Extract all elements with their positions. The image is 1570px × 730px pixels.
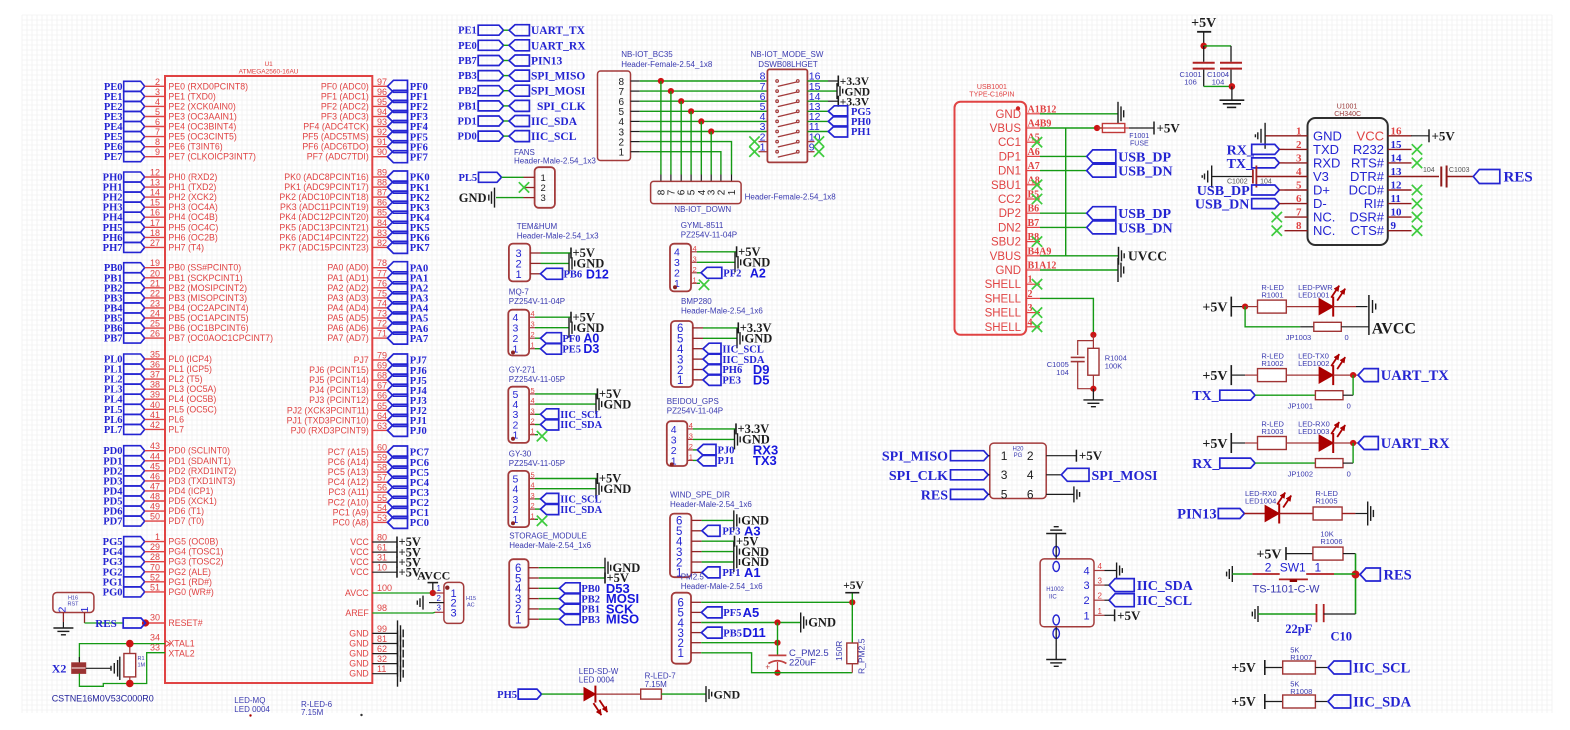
MCU left pin 36 PL1	[124, 364, 145, 374]
svg-text:SPI_CLK: SPI_CLK	[889, 469, 948, 484]
CH340C pin 2 TXD	[1285, 148, 1308, 150]
svg-text:A7: A7	[1028, 161, 1040, 172]
svg-text:86: 86	[377, 198, 387, 208]
svg-text:+5V: +5V	[843, 580, 864, 592]
svg-text:PB5 (OC1APCINT5): PB5 (OC1APCINT5)	[168, 313, 248, 323]
svg-text:PK5 (ADC13PCINT21): PK5 (ADC13PCINT21)	[279, 222, 369, 232]
svg-text:59: 59	[377, 453, 387, 463]
wire vertical drop pin6	[680, 101, 682, 174]
svg-text:3: 3	[1296, 152, 1302, 164]
svg-text:UVCC: UVCC	[1128, 249, 1167, 264]
svg-text:PE6 (T3INT6): PE6 (T3INT6)	[168, 142, 222, 152]
svg-text:PK4 (ADC12PCINT20): PK4 (ADC12PCINT20)	[279, 212, 369, 222]
svg-text:4: 4	[531, 309, 535, 318]
svg-text:SBU2: SBU2	[991, 237, 1021, 249]
MCU VCC pin 31 +5V	[372, 561, 397, 563]
MCU left pin 6 PE4	[124, 122, 145, 132]
svg-text:GND: GND	[349, 639, 369, 649]
svg-text:BMP280: BMP280	[681, 297, 712, 306]
MCU left pin 46 PD3	[124, 476, 145, 486]
wire USB GND A1B12 to ground	[1040, 113, 1118, 115]
wire cap rail top	[1204, 45, 1231, 47]
no-connect X SHELL3	[1032, 307, 1042, 317]
svg-text:PL4 (OC5B): PL4 (OC5B)	[168, 394, 216, 404]
svg-text:PB3: PB3	[458, 71, 477, 82]
svg-text:13: 13	[1391, 166, 1403, 178]
svg-text:60: 60	[377, 443, 387, 453]
MCU right pin 65 PJ2	[372, 409, 387, 411]
svg-text:PF0 (ADC0): PF0 (ADC0)	[321, 81, 369, 91]
svg-text:SPI_CLK: SPI_CLK	[537, 101, 586, 113]
svg-text:SW1: SW1	[1280, 561, 1306, 575]
svg-text:XTAL1: XTAL1	[168, 639, 194, 649]
power +3.3V BEIDOU pin4	[693, 428, 736, 430]
svg-text:PA3 (AD3): PA3 (AD3)	[327, 293, 368, 303]
MCU left pin 44 PD1	[124, 456, 145, 466]
svg-text:IIC_SCL: IIC_SCL	[722, 344, 763, 355]
CH340C pin 14 RTS#	[1388, 162, 1412, 164]
svg-text:SHELL: SHELL	[985, 322, 1022, 334]
svg-text:PJ1 (TXD3PCINT10): PJ1 (TXD3PCINT10)	[287, 415, 369, 425]
svg-text:PE0: PE0	[458, 41, 477, 52]
MCU left pin 21 PB2	[124, 283, 145, 293]
svg-text:3: 3	[1098, 577, 1103, 586]
capacitor C1003 104 on DTR#	[1412, 176, 1440, 178]
svg-text:90: 90	[377, 147, 387, 157]
no-connect X CH340C pin14	[1412, 158, 1422, 168]
MCU VCC pin 61 +5V	[372, 551, 397, 553]
MCU right pin 93 PF4	[372, 126, 387, 128]
svg-text:PB6: PB6	[564, 270, 583, 281]
power +5V CH340C pin16	[1411, 135, 1429, 137]
svg-text:PL7: PL7	[104, 425, 123, 436]
svg-text:PL3 (OC5A): PL3 (OC5A)	[168, 384, 216, 394]
ground left of C1002	[1211, 166, 1213, 188]
svg-text:+5V: +5V	[1202, 437, 1227, 452]
svg-text:PE7: PE7	[104, 152, 123, 163]
svg-text:PE5: PE5	[562, 344, 581, 355]
svg-text:PH6 (OC2B): PH6 (OC2B)	[168, 232, 217, 242]
svg-text:93: 93	[377, 117, 387, 127]
ground GY-271 pin4	[535, 403, 596, 405]
wire R1007 to IIC_SCL flag	[1315, 667, 1328, 669]
ground BEIDOU pin3	[693, 438, 735, 440]
svg-text:PA5 (AD5): PA5 (AD5)	[327, 313, 368, 323]
ground above H1002	[1055, 534, 1057, 559]
svg-text:PE0 (RXD0PCINT8): PE0 (RXD0PCINT8)	[168, 81, 248, 91]
svg-text:95: 95	[377, 97, 387, 107]
svg-text:PH7 (T4): PH7 (T4)	[168, 242, 204, 252]
power +5V H1002 pin1	[1105, 614, 1115, 616]
svg-text:PB2: PB2	[458, 86, 477, 97]
svg-text:51: 51	[150, 582, 160, 592]
MCU GND pin 62	[372, 653, 397, 655]
svg-text:76: 76	[377, 278, 387, 288]
net flag USB_DN DN2	[1040, 226, 1087, 228]
svg-text:D3: D3	[583, 342, 599, 356]
svg-text:1: 1	[1315, 561, 1322, 575]
capacitor C_PM2.5 220uF	[768, 654, 786, 656]
svg-text:1: 1	[689, 452, 693, 461]
svg-text:PF2: PF2	[723, 269, 741, 280]
svg-text:220uF: 220uF	[789, 658, 816, 669]
svg-text:1: 1	[727, 189, 738, 195]
MCU right pin 85 PK4	[372, 216, 387, 218]
svg-text:JP1002: JP1002	[1288, 469, 1313, 478]
svg-text:XTAL2: XTAL2	[168, 649, 194, 659]
wire JP1001 up to UART_TX net	[1343, 394, 1353, 396]
MCU left pin 13 PH1	[124, 182, 145, 192]
svg-text:4: 4	[1028, 317, 1033, 328]
wire PM2.5 pin2 to cap	[701, 642, 777, 644]
svg-text:PL0 (ICP4): PL0 (ICP4)	[168, 354, 212, 364]
wire RX_ to JP1002	[1255, 462, 1315, 464]
svg-text:50: 50	[150, 512, 160, 522]
svg-text:PB7: PB7	[104, 334, 123, 345]
net flag PJ1 TX3 BEIDOU pin1	[693, 459, 697, 461]
svg-text:B7: B7	[1028, 218, 1040, 229]
svg-text:U1: U1	[264, 61, 273, 68]
svg-text:57: 57	[377, 473, 387, 483]
svg-text:GND: GND	[808, 616, 836, 630]
svg-text:R1006: R1006	[1320, 537, 1342, 546]
wire NB-IOT_BC35 pin5 to switch	[640, 110, 768, 112]
MCU AVCC pin 100	[372, 592, 433, 594]
MCU RESET# pin 30	[146, 622, 166, 624]
ground left of C10	[1257, 606, 1259, 622]
ground H15 pin2	[429, 602, 444, 604]
svg-text:GY-271: GY-271	[509, 366, 536, 375]
no-connect X SHELL1	[1032, 279, 1042, 289]
wire crystal bottom loop to XTAL2	[79, 653, 165, 687]
svg-text:DP1: DP1	[999, 151, 1021, 163]
wire H16 pin1 to RES flag	[84, 612, 86, 623]
MCU right pin 54 PC1	[372, 511, 387, 513]
svg-text:CC2: CC2	[998, 194, 1021, 206]
svg-text:19: 19	[150, 258, 160, 268]
ground below H16	[53, 627, 73, 629]
svg-text:+5V: +5V	[1079, 448, 1103, 463]
net flag PE5 D3 MQ-7 pin1	[535, 348, 541, 350]
svg-text:8: 8	[155, 137, 160, 147]
svg-text:2: 2	[1265, 561, 1272, 575]
MCU right pin 78 PA0	[372, 267, 387, 269]
net flag UART_TX	[1358, 369, 1378, 382]
MCU left pin 24 PB5	[124, 313, 145, 323]
svg-text:27: 27	[150, 238, 160, 248]
svg-text:PD5 (XCK1): PD5 (XCK1)	[168, 496, 216, 506]
svg-text:18: 18	[150, 228, 160, 238]
svg-text:2: 2	[1028, 289, 1033, 300]
no-connect X CH340C pin8	[1272, 226, 1282, 236]
svg-text:PK2 (ADC10PCINT18): PK2 (ADC10PCINT18)	[279, 192, 369, 202]
resistor JP1002 0	[1315, 459, 1343, 468]
connector H20 PG 2x3	[990, 443, 1046, 498]
svg-text:+5V: +5V	[1202, 369, 1227, 384]
svg-text:63: 63	[377, 421, 387, 431]
svg-text:PZ254V-11-05P: PZ254V-11-05P	[509, 375, 565, 384]
svg-text:31: 31	[377, 553, 387, 563]
svg-text:PG1 (RD#): PG1 (RD#)	[168, 577, 212, 587]
MCU left pin 47 PD4	[124, 486, 145, 496]
no-connect X GYML pin1	[697, 282, 700, 284]
svg-text:DSWB08LHGET: DSWB08LHGET	[758, 60, 818, 69]
svg-text:SHELL: SHELL	[985, 279, 1022, 291]
svg-text:100K: 100K	[1105, 362, 1123, 371]
MCU left pin 50 PD7	[124, 516, 145, 526]
svg-text:PF5: PF5	[723, 608, 741, 619]
power +5V after fuse	[1129, 127, 1154, 129]
svg-text:IIC_SCL: IIC_SCL	[1353, 661, 1411, 677]
svg-text:74: 74	[377, 298, 387, 308]
svg-text:USB_DN: USB_DN	[1195, 198, 1249, 213]
MCU left pin 20 PB1	[124, 273, 145, 283]
svg-text:5: 5	[531, 471, 535, 480]
svg-text:VCC: VCC	[350, 537, 369, 547]
MCU right pin 87 PK2	[372, 196, 387, 198]
svg-text:GND: GND	[714, 687, 741, 701]
svg-text:25: 25	[150, 319, 160, 329]
wire VBUS trunk	[1065, 128, 1067, 256]
svg-text:PJ6 (PCINT15): PJ6 (PCINT15)	[309, 365, 369, 375]
svg-text:VCC: VCC	[350, 547, 369, 557]
svg-text:PJ1: PJ1	[718, 456, 735, 467]
svg-text:TYPE-C16PIN: TYPE-C16PIN	[969, 92, 1014, 99]
svg-text:PJ5 (PCINT14): PJ5 (PCINT14)	[309, 375, 369, 385]
ground top right	[1220, 99, 1245, 101]
net flag IIC_SDA pullup	[1328, 695, 1351, 708]
svg-text:PG0: PG0	[103, 587, 123, 598]
svg-text:2: 2	[155, 77, 160, 87]
MCU right pin 58 PC5	[372, 471, 387, 473]
svg-text:22: 22	[150, 288, 160, 298]
svg-text:R_PM2.5: R_PM2.5	[857, 638, 867, 674]
svg-text:IIC_SDA: IIC_SDA	[531, 116, 578, 128]
svg-text:2: 2	[531, 330, 535, 339]
svg-text:IIC: IIC	[1049, 595, 1057, 601]
CH340C pin 6 D-	[1285, 203, 1308, 205]
svg-text:GY-30: GY-30	[509, 450, 532, 459]
svg-text:C1003: C1003	[1449, 167, 1470, 174]
svg-text:49: 49	[150, 502, 160, 512]
svg-text:5: 5	[531, 386, 535, 395]
svg-text:PB6 (OC1BPCINT6): PB6 (OC1BPCINT6)	[168, 323, 248, 333]
svg-text:PH5 (OC4C): PH5 (OC4C)	[168, 222, 218, 232]
svg-text:A6: A6	[1028, 147, 1040, 158]
svg-text:PE5 (OC3CINT5): PE5 (OC3CINT5)	[168, 132, 237, 142]
svg-text:NB-IOT_BC35: NB-IOT_BC35	[621, 50, 673, 59]
svg-text:3: 3	[1083, 580, 1089, 592]
capacitor C1005 104	[1078, 341, 1094, 355]
svg-text:RST: RST	[68, 602, 80, 608]
svg-text:R1: R1	[138, 656, 145, 662]
svg-text:USB_DN: USB_DN	[1118, 221, 1172, 236]
net flag IIC_SCL GY-271 pin3	[535, 413, 541, 415]
CH340C pin 10 DSR#	[1388, 216, 1412, 218]
svg-text:PG: PG	[1014, 453, 1023, 459]
svg-text:98: 98	[377, 603, 387, 613]
svg-text:1: 1	[677, 375, 683, 387]
svg-text:R1003: R1003	[1261, 427, 1283, 436]
svg-text:34: 34	[150, 633, 160, 643]
resistor R_PM2.5 150R	[851, 602, 853, 643]
svg-text:PE4 (OC3BINT4): PE4 (OC3BINT4)	[168, 122, 236, 132]
wire NB-IOT_BC35 pin3 to switch	[640, 131, 768, 133]
ground CH340C pin1	[1265, 135, 1284, 137]
svg-text:SHELL: SHELL	[985, 308, 1022, 320]
svg-text:PH1 (TXD2): PH1 (TXD2)	[168, 182, 216, 192]
power +5V GY-30 pin5	[535, 478, 597, 480]
svg-text:PL7: PL7	[168, 424, 184, 434]
svg-text:8: 8	[1296, 220, 1302, 232]
switch pins 1 2 stubs	[759, 141, 768, 143]
svg-text:88: 88	[377, 178, 387, 188]
svg-text:USB_DP: USB_DP	[1118, 207, 1171, 222]
MCU left pin 52 PG1	[124, 577, 145, 587]
wire H16 pin2 to ground	[62, 612, 64, 622]
svg-text:73: 73	[377, 309, 387, 319]
svg-text:5: 5	[155, 107, 160, 117]
svg-text:PG0 (WR#): PG0 (WR#)	[168, 587, 214, 597]
svg-text:PB7: PB7	[458, 56, 477, 67]
CH340C pin 7 NC.	[1285, 216, 1308, 218]
svg-text:1: 1	[1296, 125, 1302, 137]
svg-text:LED 0004: LED 0004	[579, 676, 615, 685]
net flag IIC_SDA H1002 pin3	[1109, 579, 1134, 592]
svg-text:+5V: +5V	[1202, 300, 1227, 315]
wire VBUS to fuse	[1040, 127, 1102, 129]
CH340C pin 16 VCC	[1388, 135, 1412, 137]
ground LED-SD-W	[705, 686, 707, 702]
svg-text:GND: GND	[604, 397, 632, 411]
net flag PB3 MISO STORAGE pin1	[539, 618, 560, 620]
svg-text:16: 16	[150, 208, 160, 218]
svg-text:IIC_SCL: IIC_SCL	[1137, 594, 1192, 609]
MCU left pin 23 PB4	[124, 303, 145, 313]
no-connect X GY-30 pin1	[535, 518, 538, 520]
svg-text:22pF: 22pF	[1285, 622, 1312, 636]
svg-text:4: 4	[689, 421, 693, 430]
svg-text:67: 67	[377, 381, 387, 391]
svg-text:6: 6	[155, 117, 160, 127]
svg-text:1: 1	[531, 427, 535, 436]
svg-text:10: 10	[1391, 207, 1403, 219]
svg-text:CC1: CC1	[998, 137, 1021, 149]
ground WIND pin6	[702, 519, 734, 521]
svg-text:32: 32	[377, 654, 387, 664]
svg-text:3: 3	[531, 320, 535, 329]
svg-text:U1001: U1001	[1337, 104, 1358, 111]
svg-text:1: 1	[531, 341, 535, 350]
ground WIND pin2	[702, 561, 734, 563]
svg-text:100: 100	[377, 583, 392, 593]
svg-text:SPI_MISO: SPI_MISO	[882, 450, 948, 465]
wire vertical drop pin4	[700, 121, 702, 174]
svg-text:PZ254V-11-04P: PZ254V-11-04P	[667, 407, 723, 416]
svg-text:LED1002: LED1002	[1298, 359, 1329, 368]
svg-text:PB3 (MISOPCINT3): PB3 (MISOPCINT3)	[168, 293, 247, 303]
MCU left pin 26 PB7	[124, 333, 145, 343]
svg-text:1: 1	[516, 269, 522, 281]
MCU left pin 5 PE3	[124, 112, 145, 122]
svg-text:Header-Male-2.54_1x3: Header-Male-2.54_1x3	[517, 232, 599, 241]
MCU left pin 3 PE1	[124, 91, 145, 101]
svg-text:PJ4 (PCINT13): PJ4 (PCINT13)	[309, 385, 369, 395]
svg-text:2: 2	[437, 594, 442, 603]
net flag PF2 A2 GYML pin2	[697, 272, 701, 274]
ground BMP280 pin5	[703, 337, 737, 339]
svg-text:LED-MQ: LED-MQ	[234, 696, 265, 705]
svg-text:54: 54	[377, 503, 387, 513]
svg-text:42: 42	[150, 420, 160, 430]
MCU right pin 55 PC2	[372, 501, 387, 503]
svg-text:USB1001: USB1001	[977, 84, 1007, 91]
net flag IIC_SDA BMP280 pin3	[703, 354, 721, 365]
MCU left pin 25 PB6	[124, 323, 145, 333]
svg-text:NB-IOT_DOWN: NB-IOT_DOWN	[674, 205, 731, 214]
svg-text:PB5: PB5	[723, 628, 742, 639]
svg-text:PB7 (OC0AOC1CPCINT7): PB7 (OC0AOC1CPCINT7)	[168, 333, 273, 343]
power +3.3V BMP280 pin6	[703, 327, 738, 329]
wire cap rail bottom to ground	[1204, 85, 1232, 87]
svg-text:RES: RES	[95, 618, 116, 630]
ground MQ-7 pin3	[535, 327, 569, 329]
svg-text:PE3: PE3	[722, 376, 741, 387]
svg-text:70: 70	[150, 562, 160, 572]
svg-text:RES: RES	[921, 488, 948, 503]
svg-text:IIC_SDA: IIC_SDA	[560, 420, 602, 431]
svg-text:1: 1	[618, 148, 624, 159]
no-connect X switch pins 10 9	[814, 136, 824, 146]
svg-text:5: 5	[1001, 488, 1008, 502]
svg-text:81: 81	[377, 634, 387, 644]
no-connect X SBU1	[1032, 180, 1042, 190]
CH340C pin 12 DCD#	[1388, 189, 1412, 191]
svg-text:PJ7: PJ7	[354, 355, 369, 365]
svg-text:PL5 (OC5C): PL5 (OC5C)	[168, 404, 216, 414]
switch pins 10 9 stubs	[807, 141, 814, 143]
MCU right pin 82 PK7	[372, 246, 387, 248]
svg-text:TX_: TX_	[1227, 157, 1254, 172]
svg-text:TX_: TX_	[1192, 389, 1219, 404]
svg-text:PZ254V-11-05P: PZ254V-11-05P	[509, 459, 565, 468]
MCU right pin 56 PC3	[372, 491, 387, 493]
svg-text:PK3 (ADC11PCINT19): PK3 (ADC11PCINT19)	[280, 202, 369, 212]
svg-text:16: 16	[1391, 125, 1403, 137]
svg-text:7: 7	[1296, 207, 1302, 219]
net flag PF5 A5 PM2.5 pin5	[701, 607, 722, 618]
svg-text:PH5: PH5	[497, 690, 517, 701]
svg-text:PH0 (RXD2): PH0 (RXD2)	[168, 172, 217, 182]
svg-text:72: 72	[377, 319, 387, 329]
svg-text:62: 62	[377, 644, 387, 654]
svg-text:12: 12	[150, 168, 160, 178]
svg-text:GND: GND	[745, 332, 773, 346]
CH340C pin 3 RXD	[1285, 162, 1308, 164]
CH340C pin 1 GND	[1285, 135, 1308, 137]
resistor JP1003 0	[1314, 322, 1342, 331]
wire LED1002 to UART_TX flag	[1333, 374, 1358, 376]
svg-text:48: 48	[150, 492, 160, 502]
svg-text:6: 6	[1027, 488, 1034, 502]
MCU right pin 89 PK0	[372, 176, 387, 178]
svg-text:3: 3	[541, 193, 546, 204]
svg-text:+5V: +5V	[1117, 608, 1141, 623]
wire resistor to ground	[661, 693, 706, 695]
svg-text:USB_DP: USB_DP	[1118, 150, 1171, 165]
net flag IIC_SDA GY-271 pin2	[535, 424, 541, 426]
svg-text:PA0 (AD0): PA0 (AD0)	[327, 263, 368, 273]
